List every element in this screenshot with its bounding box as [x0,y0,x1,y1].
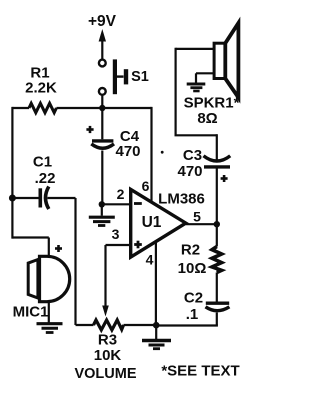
value 2.2K [25,80,57,97]
svg-text:10Ω: 10Ω [178,260,207,277]
label VOLUME [74,366,136,382]
value 470 [177,163,202,180]
svg-text:MIC1: MIC1 [13,304,49,321]
C3 polarity + [221,175,228,182]
wire C1 to volume pot [74,198,76,325]
value .1 [186,306,199,323]
node output junction [214,221,220,227]
capacitor C2 [206,273,230,326]
svg-text:C3: C3 [183,147,202,164]
C4 polarity + [86,126,93,133]
node pin4/R3 junction [153,322,160,329]
note *SEE TEXT [161,363,239,380]
svg-text:.22: .22 [35,170,56,187]
svg-text:R3: R3 [98,332,117,349]
svg-text:6: 6 [142,178,150,194]
svg-text:8Ω: 8Ω [197,110,217,127]
potentiometer R3 [94,320,124,330]
wire pin3 [106,244,131,246]
svg-text:SPKR1*: SPKR1* [184,95,240,112]
wire pin2 [102,203,131,205]
wire pot wiper with arrow [102,245,109,317]
ground under MIC1 [37,324,63,333]
wire pin4 [155,242,157,325]
wire speaker rail to C3 rail [175,134,217,136]
svg-text:4: 4 [146,252,154,268]
label MIC1 [13,304,49,321]
pin number 5 [193,209,201,225]
wire top rail left segment [12,107,29,109]
wire speaker bottom terminal [196,73,214,83]
label R2 [181,242,200,259]
svg-text:C1: C1 [33,154,52,171]
label U1 [142,214,162,231]
label R3 [98,332,117,349]
svg-text:470: 470 [177,163,202,180]
svg-text:+9V: +9V [88,13,117,30]
node C4/pin2 junction [99,201,105,207]
MIC1 polarity + [55,245,62,252]
wire top rail right segment [56,107,151,109]
svg-text:U1: U1 [142,214,162,231]
ground under pin4 node [142,325,171,349]
svg-text:S1: S1 [131,69,149,85]
label SPKR1* [184,95,240,112]
+9V supply arrow [99,29,106,59]
wire pin5 output [186,223,217,225]
svg-text:LM386: LM386 [158,191,205,208]
label R1 [30,65,49,82]
capacitor C3 [204,134,231,224]
svg-text:5: 5 [193,209,201,225]
label C1 [33,154,52,171]
value .22 [35,170,56,187]
label C4 [120,128,140,145]
label S1 [131,69,149,85]
wire mic to ground [48,302,50,323]
speaker SPKR1 [214,23,238,98]
wire node to R2 [216,224,218,246]
pin number 4 [146,252,154,268]
svg-text:VOLUME: VOLUME [74,366,136,382]
svg-text:*SEE TEXT: *SEE TEXT [161,363,239,380]
capacitor C4 [91,108,114,204]
stray ink dot [161,151,164,154]
svg-text:470: 470 [115,143,140,160]
pin number 2 [117,186,125,202]
wire pin6 drop [150,107,152,204]
label C3 [183,147,202,164]
pin number 3 [112,226,120,242]
ground under C4 [89,204,115,225]
microphone MIC1 [28,256,70,301]
value 470 [115,143,140,160]
svg-text:3: 3 [112,226,120,242]
wire switch to top node [101,95,103,108]
value 10 ohm [178,260,207,277]
resistor R2 [212,247,222,273]
node top junction [99,105,105,111]
svg-text:.1: .1 [186,306,199,323]
svg-text:C2: C2 [184,290,203,307]
svg-text:R2: R2 [181,242,200,259]
svg-text:10K: 10K [94,347,122,364]
resistor R1 [29,103,56,112]
net +9V label [88,13,117,30]
label C2 [184,290,203,307]
wire mic feed [12,238,48,258]
op-amp inverting input sign [134,202,142,205]
pin number 6 [142,178,150,194]
op-amp non-inverting input sign [134,241,142,249]
wire left rail [11,107,13,239]
op-amp U1 [131,189,186,257]
wire bottom rail [76,324,218,327]
value 8 ohm [197,110,217,127]
label LM386 [158,191,205,208]
value 10K [94,347,122,364]
ground under speaker [187,84,206,91]
svg-text:2.2K: 2.2K [25,80,57,97]
node C1 junction [9,195,16,202]
wire speaker top terminal [176,48,215,136]
svg-text:2: 2 [117,186,125,202]
switch S1 [99,59,126,94]
capacitor C1 [12,187,75,210]
